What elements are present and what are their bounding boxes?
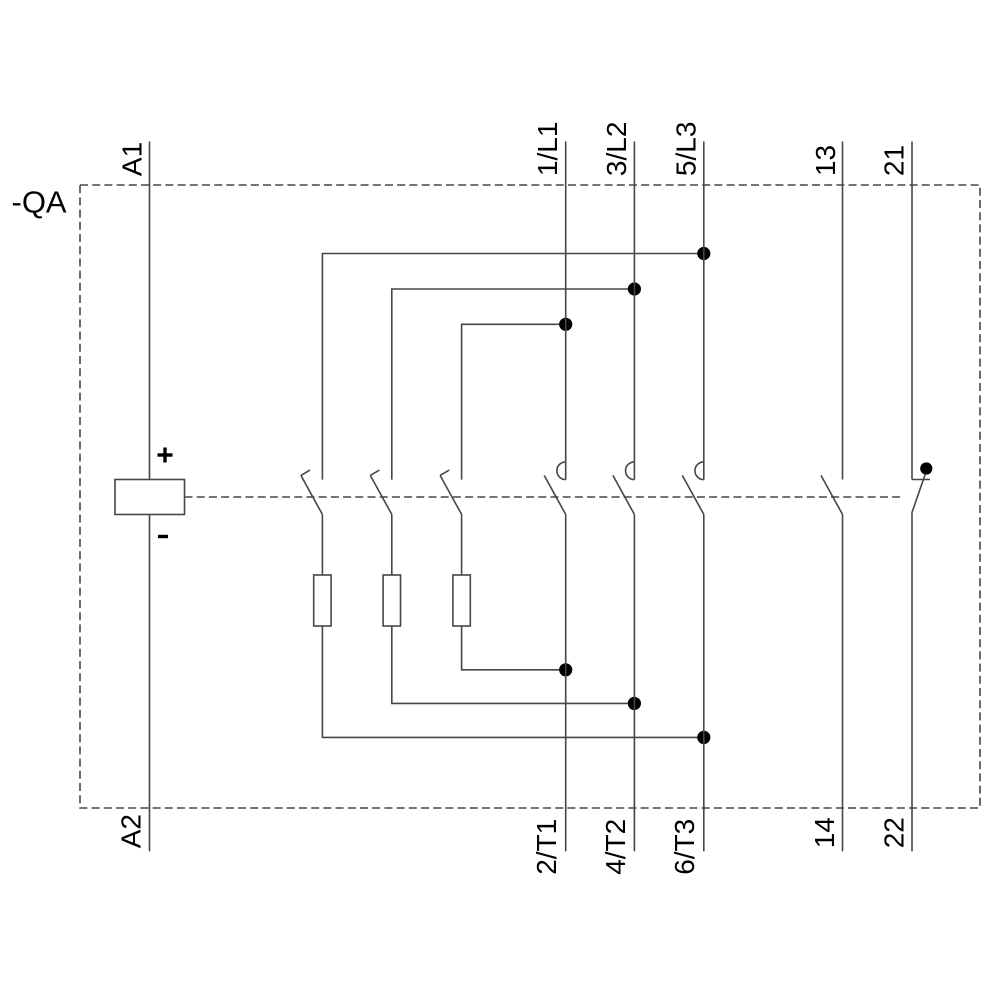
wire 2/T1 bbox=[565, 514, 567, 851]
wire precharge branch 3 top bbox=[462, 324, 566, 479]
contact blade branch 3 bbox=[440, 475, 462, 514]
contact blade tick branch 1 bbox=[301, 470, 310, 475]
wire A1 bbox=[149, 142, 151, 480]
main contact blade pole 2 bbox=[613, 475, 635, 514]
wire 4/T2 bbox=[633, 514, 635, 851]
svg-text:14: 14 bbox=[809, 817, 840, 848]
aux NC contact blade 21-22 bbox=[912, 475, 926, 514]
node junction on 3/L2 top bbox=[628, 282, 641, 295]
contact blade tick branch 2 bbox=[370, 470, 379, 475]
svg-text:A2: A2 bbox=[115, 814, 146, 848]
wire 22 bbox=[911, 514, 913, 852]
svg-text:5/L3: 5/L3 bbox=[671, 122, 702, 177]
wire 6/T3 bbox=[703, 514, 705, 851]
contact blade branch 2 bbox=[370, 475, 392, 514]
wire precharge branch 3 bottom bbox=[462, 626, 566, 670]
contact blade branch 1 bbox=[301, 475, 323, 514]
wire branch 1 to resistor bbox=[321, 514, 323, 575]
svg-text:1/L1: 1/L1 bbox=[532, 122, 563, 177]
coil K1 bbox=[115, 480, 185, 515]
svg-text:-QA: -QA bbox=[12, 185, 67, 220]
wire 13 bbox=[842, 142, 844, 480]
svg-text:4/T2: 4/T2 bbox=[600, 819, 631, 875]
wire 5/L3 bbox=[703, 142, 705, 480]
aux NO contact blade 13-14 bbox=[821, 475, 843, 514]
main contact arc pole 1 bbox=[557, 462, 566, 480]
wire branch 2 to resistor bbox=[391, 514, 393, 575]
wire precharge branch 2 bottom bbox=[392, 626, 635, 703]
enclosure dashed boundary bbox=[80, 185, 980, 808]
node junction on 1/L1 top bbox=[559, 318, 572, 331]
node junction on 4/T2 bottom bbox=[628, 697, 641, 710]
wire branch 3 to resistor bbox=[461, 514, 463, 575]
main contact blade pole 3 bbox=[682, 475, 704, 514]
wire A2 bbox=[149, 515, 151, 852]
svg-text:21: 21 bbox=[878, 145, 909, 176]
contact blade tick branch 3 bbox=[440, 470, 449, 475]
svg-text:13: 13 bbox=[810, 145, 841, 176]
wire precharge branch 1 top bbox=[322, 254, 703, 480]
resistor R3 bbox=[453, 575, 470, 626]
actuation dashed link bbox=[185, 496, 904, 498]
svg-text:3/L2: 3/L2 bbox=[601, 122, 632, 177]
resistor R1 bbox=[314, 575, 331, 626]
wire 14 bbox=[842, 514, 844, 851]
node junction on 6/T3 bottom bbox=[697, 731, 710, 744]
aux NC fixed contact bar 21-22 bbox=[912, 479, 930, 481]
node junction on 5/L3 top bbox=[697, 247, 710, 260]
node junction on 2/T1 bottom bbox=[559, 663, 572, 676]
svg-text:2/T1: 2/T1 bbox=[531, 819, 562, 875]
wire precharge branch 2 top bbox=[392, 289, 635, 480]
coil polarity minus bbox=[158, 535, 168, 538]
wire 1/L1 bbox=[565, 142, 567, 480]
aux NC contact dot bbox=[920, 462, 932, 474]
main contact arc pole 3 bbox=[695, 462, 704, 480]
resistor R2 bbox=[383, 575, 400, 626]
main contact blade pole 1 bbox=[544, 475, 566, 514]
coil polarity plus bbox=[158, 448, 173, 463]
wire precharge branch 1 bottom bbox=[322, 626, 703, 737]
main contact arc pole 2 bbox=[626, 462, 635, 480]
wire 21 bbox=[911, 142, 913, 480]
svg-text:6/T3: 6/T3 bbox=[669, 819, 700, 875]
svg-text:A1: A1 bbox=[116, 142, 147, 176]
svg-text:22: 22 bbox=[878, 817, 909, 848]
wire 3/L2 bbox=[633, 142, 635, 480]
